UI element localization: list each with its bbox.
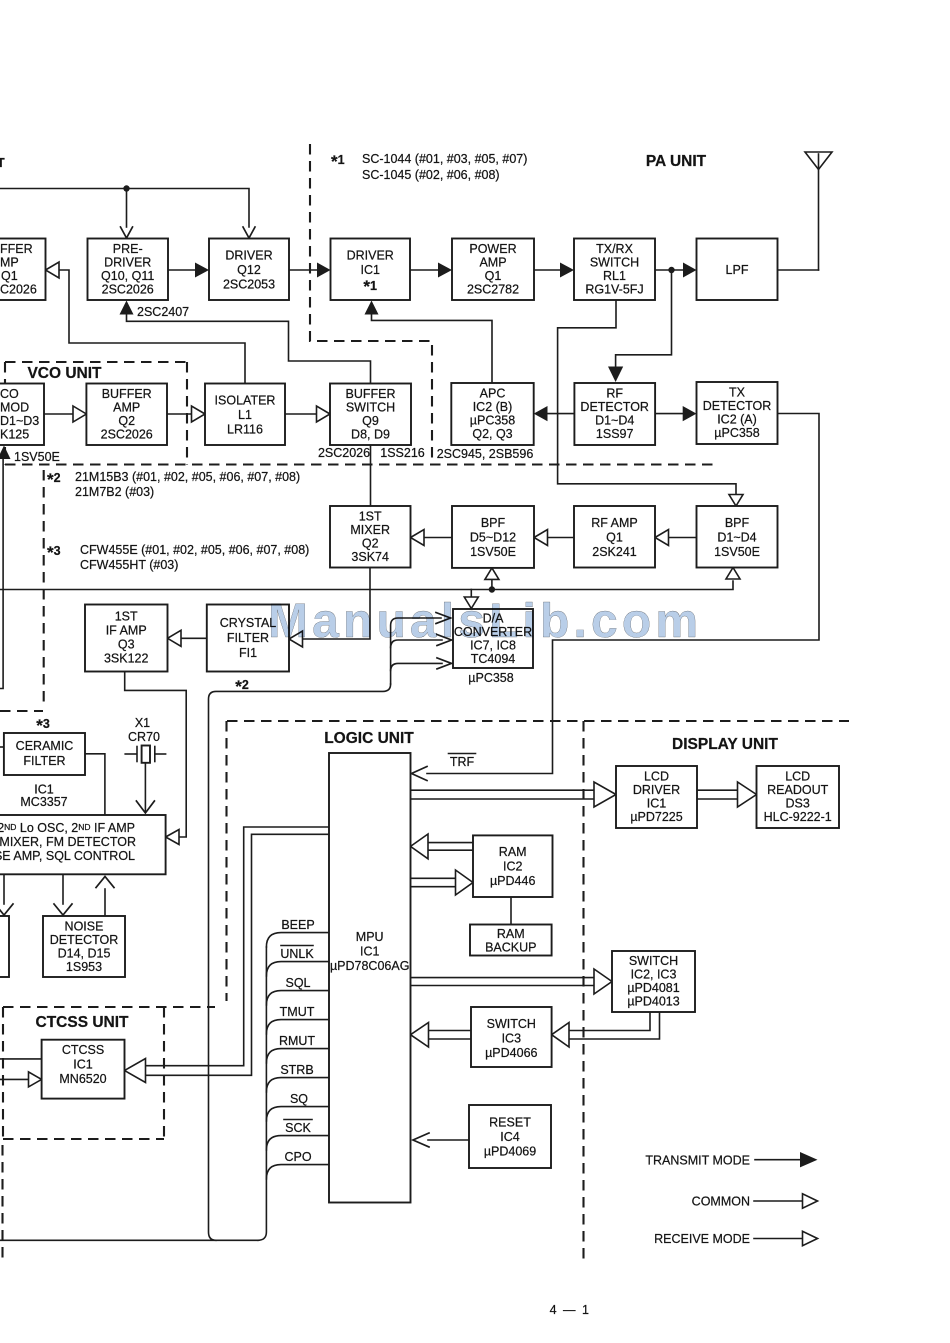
crystal filter FI1 [207,605,289,672]
svg-text:LOGIC UNIT: LOGIC UNIT [324,730,414,747]
svg-text:VCO UNIT: VCO UNIT [27,365,102,382]
arrow bus into CTCSS right (big open) [125,1059,146,1083]
wire: crystal filter to 1st IF amp [179,637,207,639]
wire: power amp to TX/RX switch [534,269,562,271]
svg-text:MOD: MOD [0,401,29,415]
svg-text:L1: L1 [238,408,252,422]
svg-text:D8, D9: D8, D9 [351,428,390,442]
svg-text:TRF: TRF [450,755,475,769]
svg-text:IF AMP: IF AMP [106,624,147,638]
RAM backup [470,925,552,956]
svg-text:DS3: DS3 [786,797,810,811]
svg-text:4 — 1: 4 — 1 [550,1303,591,1317]
svg-text:21M15B3 (#01, #02, #05, #06, #: 21M15B3 (#01, #02, #05, #06, #07, #08) [75,470,300,484]
arrow driver IC1 to power amp (filled) [438,263,452,278]
wire: MPU pin SCK [266,1136,329,1150]
note *2 21M15B3 / 21M7B2 [47,470,300,499]
svg-text:RF AMP: RF AMP [591,516,638,530]
svg-text:µPD78C06AG: µPD78C06AG [330,959,409,973]
svg-text:UNLK: UNLK [280,947,314,961]
svg-text:DRIVER: DRIVER [633,783,680,797]
svg-text:CFW455E (#01, #02, #05, #06, #: CFW455E (#01, #02, #05, #06, #07, #08) [80,543,309,557]
svg-text:D1~D4: D1~D4 [595,414,634,428]
bus: switch IC3 to MPU shaft [429,1031,471,1040]
svg-text:TX/RX: TX/RX [596,242,633,256]
svg-text:LPF: LPF [726,263,749,277]
svg-text:TC4094: TC4094 [471,652,516,666]
svg-text:MIXER: MIXER [350,523,390,537]
arrow 2SC2407 into pre-driver bottom (filled) [120,301,134,315]
LCD driver IC1 [616,766,697,828]
svg-text:2ND Lo OSC, 2ND IF AMP: 2ND Lo OSC, 2ND IF AMP [0,821,135,835]
svg-text:TRANSMIT MODE: TRANSMIT MODE [645,1154,750,1168]
label TRF with overline [449,754,476,770]
legend common [692,1194,818,1209]
arrow power amp to TX/RX switch (filled) [560,263,574,278]
wire: APC output to driver IC1 [372,312,493,383]
wire: MPU pin RMUT [266,1049,329,1063]
legend transmit mode [645,1152,817,1168]
svg-text:RL1: RL1 [603,269,626,283]
arrow bus into RAM from MPU (big open) [456,870,474,895]
BPF D5-D12 [452,506,534,568]
svg-text:SWITCH: SWITCH [346,401,395,415]
svg-text:IC3: IC3 [502,1032,522,1046]
svg-text:DETECTOR: DETECTOR [703,399,772,413]
wire: driver Q12 to driver IC1 [289,269,319,271]
svg-text:CERAMIC: CERAMIC [16,739,74,753]
svg-text:APC: APC [480,387,506,401]
arrow bus into LCD readout (big open) [738,782,757,807]
svg-text:POWER: POWER [469,242,516,256]
arrow bundle into IC1 MC3357 right (open) [166,830,179,845]
svg-text:SQL: SQL [285,976,310,990]
arrow into 1st IF amp right (open) [168,630,182,646]
svg-text:2SC2782: 2SC2782 [467,283,519,297]
svg-text:LCD: LCD [644,770,669,784]
svg-text:2SC2026: 2SC2026 [318,446,370,460]
svg-text:D1~D3: D1~D3 [0,414,39,428]
arrow into BPF D1-D4 top (open) [729,495,743,507]
left main-unit dashed boundary [0,470,44,711]
arrow into buffer amp Q1 (open) [46,262,60,278]
wire: CTCSS input line 2 from page edge [0,1078,29,1080]
svg-text:MN6520: MN6520 [59,1072,106,1086]
arrow IC1 MC3357 to AF block (thin) [0,904,13,915]
wire: 1st mixer down to crystal filter [302,568,370,640]
svg-text:SWITCH: SWITCH [629,954,678,968]
svg-text:HLC-9222-1: HLC-9222-1 [764,810,832,824]
svg-text:BPF: BPF [725,516,750,530]
svg-text:AMP: AMP [113,401,140,415]
wire: TX detector TRF line to MPU [427,414,819,774]
svg-text:Q1: Q1 [1,269,18,283]
arrow into BPF D5-D12 bottom (open) [485,568,499,580]
svg-text:TMUT: TMUT [280,1005,315,1019]
bus: MPU to LCD driver shaft [411,790,596,799]
svg-text:FILTER: FILTER [227,631,269,645]
svg-text:DRIVER: DRIVER [225,249,272,263]
pin label UNLK with overline [280,946,314,962]
svg-text:FFER: FFER [0,242,33,256]
svg-text:1SV50E: 1SV50E [714,545,760,559]
wire: IC1 MC3357 to AF block at page edge [3,874,5,904]
TX/RX switch RL1 [574,239,655,301]
svg-text:1SV50E: 1SV50E [14,450,60,464]
svg-text:SQ: SQ [290,1092,308,1106]
svg-text:3SK122: 3SK122 [104,652,149,666]
wire: pre-driver to driver Q12 [168,269,197,271]
svg-text:RF: RF [606,387,623,401]
lower-left dashed boundary [1,1145,3,1262]
switch IC3 [471,1007,552,1067]
svg-text:Q2: Q2 [362,537,379,551]
arrow bus into D/A converter line 3 (thin) [437,658,452,669]
AF block (cut at page edge) [0,916,9,977]
arrow RF detector into TX detector (filled) [683,406,697,421]
svg-text:BACKUP: BACKUP [485,941,536,955]
bus: switch IC2 IC3 down to switch IC3 shaft [566,1012,660,1039]
svg-text:BUFFER: BUFFER [102,387,152,401]
svg-text:TX: TX [729,386,746,400]
ceramic filter [4,733,85,775]
buffer switch Q9 [330,384,411,446]
arrow bus into LCD driver (big open) [594,782,616,807]
wire: bottom bus line exiting page left [0,1239,258,1241]
svg-text:3SK74: 3SK74 [351,550,389,564]
svg-text:µPC358: µPC358 [470,414,515,428]
svg-text:µPD446: µPD446 [490,874,535,888]
arrow reset into MPU (thin) [413,1133,429,1147]
svg-text:C2026: C2026 [0,283,37,297]
arrow into 1st mixer right (open) [411,530,425,546]
arrow bus into D/A converter line 2 (thin) [437,635,452,646]
wire: bundle branch to IC1 MC3357 [125,672,187,838]
arrow APC into driver IC1 bottom (filled) [365,301,379,315]
wire: RF amp to BPF D5-D12 [546,537,574,539]
CTCSS UNIT dashed box [3,1007,215,1139]
svg-text:D14, D15: D14, D15 [58,947,111,961]
wire: VCO varactor feed line at left edge [0,458,3,689]
APC IC2 (B) [451,383,533,445]
svg-text:2SC945, 2SB596: 2SC945, 2SB596 [437,447,534,461]
svg-text:FI1: FI1 [239,646,257,660]
svg-text:SCK: SCK [285,1121,311,1135]
svg-text:NOISE AMP, SQL CONTROL: NOISE AMP, SQL CONTROL [0,849,135,863]
svg-text:PRE-: PRE- [113,242,143,256]
CTCSS IC1 [42,1040,125,1099]
VCO mod (cut at page edge) [0,384,44,446]
svg-text:IC1: IC1 [360,945,380,959]
arrow TRF into MPU (thin) [412,767,428,781]
svg-text:µPD7225: µPD7225 [630,810,682,824]
svg-text:1SS97: 1SS97 [596,427,634,441]
arrow into buffer switch (open) [317,406,331,422]
wire: RAM to RAM backup [510,897,512,925]
svg-text:LR116: LR116 [227,423,263,437]
svg-text:SWITCH: SWITCH [590,256,639,270]
D/A converter IC7 IC8 [453,609,533,668]
svg-text:READOUT: READOUT [767,783,828,797]
arrow into pre-driver top [121,227,133,238]
legend receive mode [654,1231,817,1246]
wire: MPU pin SQL [266,991,329,1005]
wire: TX/RX switch to LPF [655,269,685,271]
LOGIC UNIT / DISPLAY UNIT dashed top boundary [227,720,849,722]
wire: MPU pin SQ [266,1107,329,1121]
svg-text:Q10, Q11: Q10, Q11 [101,269,154,283]
switch IC2 IC3 [612,951,695,1012]
svg-text:BEEP: BEEP [281,918,314,932]
svg-text:2SC2026: 2SC2026 [101,428,153,442]
pin label SCK with overline [284,1120,312,1136]
arrow into buffer amp Q2 (open) [73,406,86,422]
wire: reset to MPU [428,1139,469,1141]
wire: CTCSS input line 1 from page edge [0,1058,42,1060]
DISPLAY UNIT dashed left boundary [582,721,584,1261]
wire: D/A tuning line to VCO and BPFs [0,581,733,590]
svg-text:µPD4081: µPD4081 [627,981,679,995]
svg-text:DETECTOR: DETECTOR [50,933,119,947]
svg-text:Q1: Q1 [485,269,502,283]
svg-text:RMUT: RMUT [279,1034,315,1048]
node: junction at LPF input [668,267,674,273]
wire: noise detector to IC1 MC3357 [104,889,106,916]
arrow into CTCSS left (open) [29,1072,42,1087]
driver Q12 [209,239,289,301]
arrow junction to LPF (filled) [683,263,697,278]
svg-text:DETECTOR: DETECTOR [580,400,649,414]
wire: driver IC1 to power amp [410,269,440,271]
svg-text:1SS216: 1SS216 [380,446,425,460]
arrow into BPF D1-D4 bottom (open) [726,568,740,580]
svg-text:CPO: CPO [284,1150,311,1164]
svg-text:IC2: IC2 [503,860,523,874]
svg-text:21M7B2 (#03): 21M7B2 (#03) [75,485,154,499]
svg-text:2SC2053: 2SC2053 [223,278,275,292]
wire: IC1 MC3357 to noise detector [62,874,64,904]
driver IC1 [331,239,411,301]
reset IC4 [469,1105,551,1168]
svg-text:BUFFER: BUFFER [346,387,396,401]
svg-text:CTCSS UNIT: CTCSS UNIT [36,1014,130,1031]
svg-text:2ND MIXER, FM DETECTOR: 2ND MIXER, FM DETECTOR [0,835,136,849]
arrow bus into switch IC2 IC3 (big open) [594,969,612,994]
svg-text:DRIVER: DRIVER [104,256,151,270]
buffer amp Q1 (cut at page edge) [0,239,46,301]
wire: MPU pin TMUT [266,1020,329,1034]
bus: MPU to CTCSS (double line) [144,827,329,1075]
svg-text:IC1: IC1 [73,1058,93,1072]
svg-text:AMP: AMP [479,256,506,270]
svg-text:IC1: IC1 [647,797,667,811]
RF detector D1-D4 [574,383,655,445]
arrow bus into switch IC3 (big open) [552,1023,569,1048]
svg-text:2SK241: 2SK241 [592,545,637,559]
svg-text:T: T [0,156,5,170]
svg-text:D1~D4: D1~D4 [717,531,756,545]
BPF D1-D4 [697,506,778,568]
arrow driver Q12 to driver IC1 (filled) [317,263,331,278]
svg-text:FILTER: FILTER [23,754,65,768]
svg-text:SC-1045 (#02, #06, #08): SC-1045 (#02, #06, #08) [362,168,500,182]
arrow into RF amp right (open) [655,530,669,546]
arrow crystal X1 into IC1 MC3357 (thin) [136,801,154,813]
svg-text:IC2 (B): IC2 (B) [473,400,513,414]
wire: ceramic filter input from page edge [0,746,4,748]
svg-text:NOISE: NOISE [65,920,104,934]
LPF [697,239,778,301]
wire: RF detector to TX detector [655,413,684,415]
arrow pre-driver to driver Q12 (filled) [195,263,209,278]
svg-text:STRB: STRB [280,1063,313,1077]
wire: isolater output up to buffer amp Q1 [59,270,245,383]
bus: RAM to MPU shaft [426,843,473,851]
svg-text:ManualsLib.com: ManualsLib.com [268,595,698,648]
svg-text:CR70: CR70 [128,730,160,744]
wire: RF detector to APC [546,413,574,415]
wire: MPU pin BEEP [266,933,329,947]
wire: tuning branch down to D/A converter top [470,590,472,598]
wire: tuning branch up to BPF D5-D12 [491,580,493,590]
svg-text:Q12: Q12 [237,263,261,277]
wire: BPF D1-D4 to RF amp [667,537,697,539]
bus: MPU to switch IC2 IC3 shaft [411,978,596,986]
pre-driver Q10 Q11 [88,239,169,301]
arrow bus into D/A converter line 1 (thin) [436,613,451,624]
bus: MPU to RAM shaft [411,878,458,886]
arrow into isolater (open) [192,406,206,422]
wire: MPU pin STRB [266,1078,329,1092]
RF amp Q1 [574,506,655,568]
svg-text:µPC358: µPC358 [714,426,759,440]
MPU IC1 [329,753,411,1203]
svg-text:Q2: Q2 [118,414,135,428]
svg-text:RAM: RAM [499,845,527,859]
arrow IC1 MC3357 to noise detector (thin) [54,904,72,915]
wire: MPU pin UNLK [266,962,329,976]
node: junction on top feed line [123,185,129,191]
TX detector IC2 (A) [697,382,778,444]
svg-text:DRIVER: DRIVER [347,249,394,263]
svg-text:1S953: 1S953 [66,960,102,974]
svg-text:COMMON: COMMON [692,1195,750,1209]
wire: buffer switch down to 1st mixer [370,445,372,506]
note *1 SC-1044 / SC-1045 [331,152,527,182]
power amp Q1 [452,239,534,301]
wire: TX/RX switch down to BPF D1-D4 top [558,300,736,495]
1st mixer Q2 [330,506,411,568]
svg-text:LCD: LCD [785,770,810,784]
1st IF amp Q3 [85,605,168,672]
wire: BPF D5-D12 to 1st mixer [423,537,452,539]
VCO UNIT dashed box [5,362,187,465]
svg-text:µPD4013: µPD4013 [627,995,679,1009]
wire: ceramic filter to IC1 MC3357 [85,754,105,815]
svg-text:1ST: 1ST [359,510,382,524]
svg-text:IC2, IC3: IC2, IC3 [631,968,677,982]
svg-text:RESET: RESET [489,1116,531,1130]
noise detector D14 D15 [43,916,125,977]
wire: serial bus from MPU area to D/A converter (curved bundle) [209,618,443,1240]
svg-text:Q9: Q9 [362,414,379,428]
svg-text:1SV50E: 1SV50E [470,545,516,559]
svg-text:SC-1044 (#01, #03, #05, #07): SC-1044 (#01, #03, #05, #07) [362,152,527,166]
svg-text:CO: CO [0,387,19,401]
antenna [805,152,832,270]
svg-text:RAM: RAM [497,927,525,941]
arrow into driver Q12 top [243,227,255,238]
wire: buffer amp Q2 to isolater [167,413,193,415]
svg-text:IC2 (A): IC2 (A) [717,413,757,427]
arrow into D/A converter top (open) [464,597,478,609]
svg-text:SWITCH: SWITCH [487,1017,536,1031]
wire: top feed line to pre-driver and driver Q12 [0,189,249,228]
bus: LCD driver to LCD readout shaft [697,790,739,799]
wire: LPF to antenna [778,269,819,271]
buffer amp Q2 [86,384,167,446]
svg-text:2SC2407: 2SC2407 [137,305,189,319]
wire: isolater to buffer switch [285,413,318,415]
label X1 CR70 [128,716,160,744]
svg-text:µPD4069: µPD4069 [484,1145,536,1159]
wire: MPU pin bundle riser [258,947,266,1240]
svg-text:IC4: IC4 [500,1130,520,1144]
wire: LPF junction down to RF detector [616,270,672,367]
PA UNIT dashed left boundary [310,144,432,465]
svg-text:ISOLATER: ISOLATER [215,394,276,408]
svg-text:CFW455HT (#03): CFW455HT (#03) [80,558,178,572]
LCD readout DS3 [757,766,840,828]
wire: MPU pin CPO [266,1165,329,1179]
svg-text:PA UNIT: PA UNIT [646,153,707,170]
svg-text:µPD4066: µPD4066 [485,1046,537,1060]
node: junction on tuning line [489,586,495,592]
note *3 CFW455E / CFW455HT [47,543,309,572]
svg-text:Q1: Q1 [606,531,623,545]
arrow into BPF D5-D12 right (open) [534,530,548,546]
arrow noise detector into IC1 MC3357 (thin) [96,877,114,888]
svg-text:RECEIVE MODE: RECEIVE MODE [654,1232,750,1246]
svg-text:RG1V-5FJ: RG1V-5FJ [585,283,643,297]
arrow RF detector into APC (filled) [534,406,548,421]
svg-text:2SC2026: 2SC2026 [102,283,154,297]
arrow into RF detector top (filled) [608,367,623,383]
svg-text:DISPLAY UNIT: DISPLAY UNIT [672,736,778,753]
svg-text:1ST: 1ST [115,610,138,624]
svg-text:µPC358: µPC358 [468,671,513,685]
RAM IC2 [473,835,553,897]
arrow into crystal filter right (open) [289,631,303,647]
crystal X1 symbol [125,746,165,763]
isolater L1 [205,384,285,446]
LOGIC UNIT dashed left boundary [225,721,227,1001]
svg-text:D5~D12: D5~D12 [470,531,516,545]
svg-text:MPU: MPU [356,930,384,944]
svg-text:Q2, Q3: Q2, Q3 [472,427,512,441]
label IC1 MC3357 [20,783,67,810]
wire: VCO mod to buffer amp Q2 [44,413,74,415]
arrow bus into MPU from RAM (big open) [411,834,429,859]
svg-text:X1: X1 [135,716,150,730]
arrow bus into MPU from switch IC3 (big open) [411,1023,429,1048]
arrow into VCO mod bottom 1SV50E (filled) [0,446,11,460]
IC1 MC3357 block [0,815,166,874]
wire: buffer switch output to pre-driver (2SC2407) [127,314,371,383]
svg-text:CTCSS: CTCSS [62,1043,104,1057]
svg-text:Q3: Q3 [118,638,135,652]
main unit dashed horizontal boundary [5,463,714,465]
